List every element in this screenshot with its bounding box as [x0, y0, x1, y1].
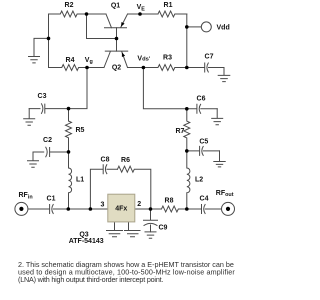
arrow Q1 emitter — [121, 22, 125, 27]
ground G1 — [29, 57, 40, 63]
capacitor C7 — [187, 63, 224, 72]
svg-text:L2: L2 — [195, 176, 203, 183]
transistor Q1 — [105, 14, 128, 28]
wire Vdd stub — [187, 26, 202, 28]
port RFin — [15, 202, 28, 215]
wire right bus top — [186, 14, 188, 68]
resistor R3 — [143, 65, 186, 71]
wire R2 to Q1 collector — [87, 13, 107, 15]
port RFout — [222, 202, 235, 215]
ground C7 — [218, 68, 230, 82]
svg-text:R4: R4 — [66, 57, 75, 64]
resistor R2 — [49, 11, 87, 17]
LNA box Q3 — [108, 194, 135, 222]
wire Q2 emitter to Vds' — [128, 67, 144, 69]
ground box pin left — [107, 231, 123, 237]
svg-text:Vdd: Vdd — [217, 24, 230, 31]
ground C5 — [214, 151, 225, 167]
ground C9 — [145, 232, 156, 238]
capacitor C6 — [187, 104, 217, 113]
svg-text:Q2: Q2 — [112, 64, 121, 71]
wire Vg to Q2 — [87, 67, 104, 69]
capacitor C1 — [50, 205, 69, 214]
svg-text:C9: C9 — [159, 224, 168, 231]
ground C6 — [212, 109, 223, 125]
capacitor C9 — [144, 209, 158, 232]
svg-text:R1: R1 — [164, 2, 173, 9]
wire C1 to box pin3 — [68, 208, 108, 210]
wire left bus — [48, 14, 50, 68]
inductor L2 — [187, 151, 190, 209]
wire Vg vertical — [69, 68, 88, 109]
wire Vds' vertical — [143, 68, 186, 109]
wire box pin2 to R8 — [135, 208, 162, 210]
wire Q1 base link — [87, 14, 117, 39]
resistor R6 — [118, 166, 151, 209]
svg-text:R7: R7 — [176, 128, 185, 135]
svg-text:C1: C1 — [47, 195, 56, 202]
capacitor C4 — [202, 205, 222, 214]
svg-text:R2: R2 — [65, 2, 74, 9]
inductor L1 — [69, 152, 72, 209]
resistor R4 — [49, 65, 88, 71]
svg-text:Q1: Q1 — [111, 3, 120, 10]
ground box pin right — [125, 231, 141, 237]
wire R8 to C4 — [187, 208, 202, 210]
capacitor C5 — [187, 146, 220, 155]
transistor Q2 — [104, 51, 128, 67]
ground C3 — [24, 109, 35, 126]
svg-text:4Fx: 4Fx — [115, 206, 127, 213]
arrow Q2 emitter — [122, 52, 125, 57]
capacitor C3 — [29, 104, 68, 114]
svg-text:ATF-54143: ATF-54143 — [69, 238, 104, 245]
svg-text:Vds': Vds' — [137, 56, 150, 63]
feedback loop C8 R6 — [90, 165, 117, 209]
svg-text:C7: C7 — [205, 53, 214, 60]
resistor R7 — [184, 109, 190, 151]
svg-text:L1: L1 — [76, 176, 84, 183]
wire base vertical Q1-Q2 — [116, 28, 118, 51]
svg-text:C8: C8 — [101, 156, 110, 163]
ground C2 — [28, 152, 39, 167]
svg-text:R5: R5 — [76, 127, 85, 134]
svg-text:R3: R3 — [163, 55, 172, 62]
svg-text:C5: C5 — [199, 138, 208, 145]
resistor R5 — [66, 109, 72, 152]
svg-text:2: 2 — [137, 201, 141, 208]
capacitor C2 — [33, 147, 69, 157]
wire RFin to C1 — [28, 208, 50, 210]
junction dots — [85, 12, 89, 16]
Vdd circle — [201, 22, 211, 32]
box pin stubs — [115, 222, 129, 231]
svg-text:C3: C3 — [38, 93, 47, 100]
svg-text:3: 3 — [101, 201, 105, 208]
svg-text:R6: R6 — [121, 157, 130, 164]
svg-text:C4: C4 — [200, 195, 209, 202]
svg-text:C6: C6 — [197, 95, 206, 102]
svg-text:R8: R8 — [165, 197, 174, 204]
resistor R8 — [162, 206, 187, 212]
svg-text:C2: C2 — [43, 137, 52, 144]
resistor R1 — [158, 11, 187, 17]
svg-text:(LNA) with high output third-o: (LNA) with high output third-order inter… — [18, 275, 163, 284]
node VE wire: Q1 emitter to R1 — [128, 13, 159, 15]
ground branch left bus — [34, 38, 49, 56]
